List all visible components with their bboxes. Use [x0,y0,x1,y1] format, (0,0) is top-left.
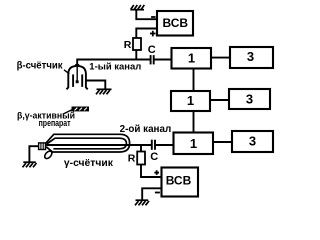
svg-text:ВСВ: ВСВ [163,16,189,30]
svg-text:R: R [128,152,136,164]
svg-text:R: R [124,39,132,51]
svg-text:1: 1 [187,93,194,108]
svg-text:γ-счётчик: γ-счётчик [64,158,113,169]
svg-text:3: 3 [249,134,256,149]
svg-text:3: 3 [247,49,254,64]
svg-text:C: C [148,44,156,56]
svg-text:препарат: препарат [39,118,71,129]
svg-text:3: 3 [246,91,253,106]
svg-text:1: 1 [190,136,197,151]
svg-text:C: C [150,151,158,163]
svg-text:2-ой канал: 2-ой канал [120,124,172,135]
svg-text:1: 1 [188,51,195,66]
svg-text:ВСВ: ВСВ [166,174,192,188]
svg-text:1-ый канал: 1-ый канал [89,62,141,72]
svg-text:β-счётчик: β-счётчик [17,60,64,71]
